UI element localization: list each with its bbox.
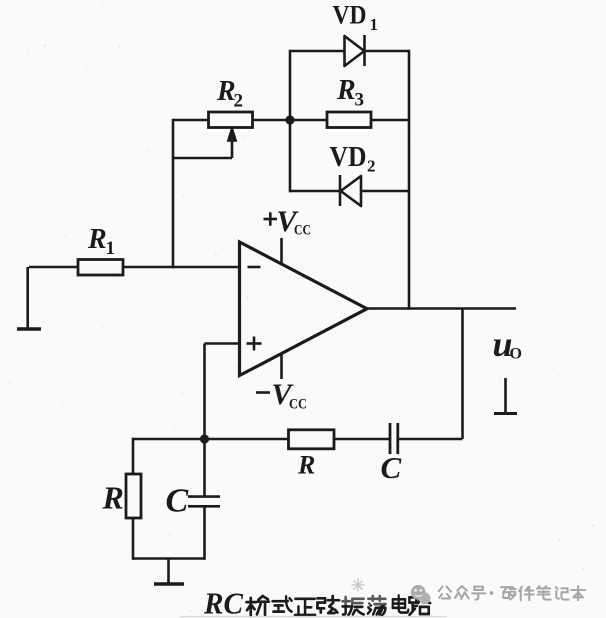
svg-text:2: 2 — [367, 157, 376, 176]
svg-text:CC: CC — [289, 397, 307, 413]
svg-text:VD: VD — [333, 1, 367, 30]
svg-text:R: R — [336, 75, 356, 106]
svg-text:RC: RC — [203, 586, 243, 618]
svg-text:C: C — [166, 483, 189, 520]
svg-text:VD: VD — [330, 141, 367, 173]
svg-text:R: R — [87, 224, 107, 255]
svg-text:O: O — [510, 346, 522, 363]
svg-text:1: 1 — [106, 238, 116, 259]
svg-text:3: 3 — [355, 90, 365, 111]
svg-text:2: 2 — [234, 91, 244, 112]
svg-text:CC: CC — [294, 223, 311, 239]
svg-text:R: R — [102, 480, 124, 516]
svg-text:C: C — [381, 450, 402, 485]
svg-text:1: 1 — [370, 15, 379, 34]
